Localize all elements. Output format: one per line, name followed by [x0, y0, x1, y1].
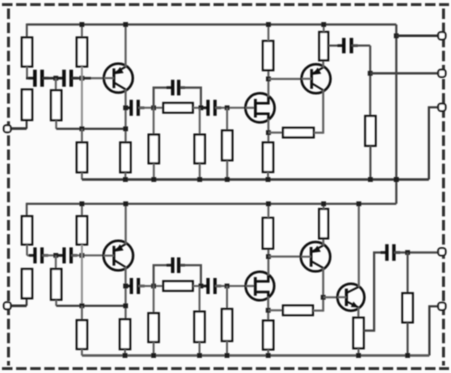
wire: R6 bottom to bottom bus [124, 172, 126, 179]
wire: Q1 emitter up to supply bus [125, 25, 127, 67]
wire: source branch to R13 [268, 132, 283, 134]
wire: FET' source column down [267, 297, 269, 321]
wire: R14' top stub to bus [323, 204, 325, 209]
resistor R6' [120, 319, 130, 349]
node: bus/R2' junction [80, 201, 85, 206]
wire: R4 bottom to mid bus [55, 120, 57, 129]
node: collector/mid-bus junction [123, 126, 128, 131]
wire: C3 to bridged-T left node [138, 107, 163, 109]
node: bus/R11 junction [266, 22, 271, 27]
node: source' branch junction [266, 308, 271, 313]
node: output/terminal branch [368, 71, 373, 76]
wire: Q4 emitter down to R16 [357, 307, 359, 317]
wire: branch to Q4 base [323, 296, 337, 298]
wire: stub down to R8' [153, 286, 155, 313]
wire: R10' to bottom bus [226, 341, 228, 356]
wire: C3' to bridged-T left node [139, 285, 164, 287]
capacitor C4' (bridge top) [166, 257, 185, 273]
wire: supply corner down feed to channel 2 [395, 25, 397, 204]
wire: R10 to bottom bus [226, 160, 228, 179]
resistor R11' [263, 218, 273, 249]
capacitor C3 [125, 100, 144, 116]
wire: bus corner down to R1' [26, 203, 28, 216]
node: mid bus / R5' junction [80, 303, 85, 308]
transistor Q3 (PNP) [302, 64, 331, 93]
node: bus/R14 junction [321, 22, 326, 27]
wire: R5' bottom to channel bottom bus [81, 349, 83, 356]
node: bridged-T left [151, 105, 156, 110]
node: mid bus / R5 junction [80, 126, 85, 131]
wire: R1 bottom to input cap node [26, 67, 28, 79]
wire: R8 to bottom bus [153, 163, 155, 179]
node: bridged-T right [199, 105, 204, 110]
terminal 5 (common 2) [438, 303, 445, 310]
resistor R9 [195, 135, 205, 164]
wire: R9 to bottom bus [199, 163, 201, 179]
wire: collector to C3' [126, 285, 131, 287]
wire: R9' to bottom bus [199, 342, 201, 356]
node: junction to R10 [225, 105, 230, 110]
wire: R13' right to Q3' collector column [313, 310, 323, 312]
wire: C5 to FET gate [215, 107, 245, 109]
wire: R1' bottom to input cap node [26, 245, 28, 256]
wire: branch to terminal 1 [396, 35, 442, 38]
resistor R4 [51, 90, 61, 120]
wire: stub to R5 [81, 129, 83, 143]
wire: mid bus (channel 2) [56, 305, 125, 307]
wire: collector to C3 [126, 107, 130, 109]
node: drain branch junction [266, 77, 271, 82]
wire: drain branch to Q3 base [268, 78, 301, 80]
wire: C7 to terminal 4 [394, 251, 442, 253]
wire: R3' column below input [26, 298, 28, 306]
terminal 1 (supply) [438, 32, 445, 39]
wire: top supply bus (channel 2) [27, 203, 397, 205]
capacitor C4 (bridge top) [166, 80, 185, 96]
terminal 4 (output 2) [438, 248, 445, 255]
transistor Q4 (NPN emitter follower) [337, 284, 364, 311]
wire: left node up and across top cap [154, 265, 172, 286]
capacitor C3' [125, 278, 145, 294]
resistor R15 [365, 116, 375, 146]
resistor R1' [22, 216, 32, 244]
resistor R1 [22, 38, 32, 67]
wire: stub down to R4 [55, 78, 57, 90]
resistor R16 (level pot) [353, 318, 363, 349]
resistor R7 (horizontal) [163, 103, 193, 113]
wire: R12 to bottom bus [267, 172, 269, 180]
resistor R5 [77, 143, 87, 173]
wire: FET' drain column up to bus [267, 249, 269, 276]
capacitor C5' [202, 278, 221, 294]
resistor R2' [77, 216, 87, 244]
wire: input lead to terminal [7, 127, 27, 130]
wire: pot tap to C6 [328, 45, 342, 47]
wire: R6' bottom to bottom bus [124, 349, 126, 355]
node: junction to R17 [405, 250, 410, 255]
node: R2 column crosses base wire [80, 76, 85, 81]
wire: Q3 emitter up to R14 [322, 60, 324, 67]
capacitor C1' [29, 247, 48, 263]
resistor R6 [120, 143, 130, 173]
wire: Q1' collector down [125, 267, 127, 319]
node: source branch junction [266, 130, 271, 135]
resistor R3' [22, 269, 32, 298]
transistor Q3' (PNP) [301, 242, 330, 271]
resistor R8' [148, 313, 158, 342]
wire: stub down to R8 [153, 108, 155, 135]
node: bottom bus junctions (channel 2) [123, 353, 410, 358]
node: bus/Q4 junction [356, 201, 361, 206]
wire: C2 to Q1 base [71, 77, 104, 80]
wire: C5' to FET gate [215, 285, 246, 287]
terminal: input 2 (left) [4, 302, 11, 309]
wire: Q3' collector down to R13' [322, 268, 324, 312]
node: R1/C1 junction [26, 77, 33, 80]
transistor Q1' (PNP) [104, 241, 134, 271]
capacitor C2' [58, 247, 78, 263]
wire: R17 to bottom bus [407, 322, 409, 355]
wire: drain' branch to Q3' base [268, 256, 301, 258]
wire: mid bus (channel 1) [56, 128, 125, 130]
wire: FET source column down [267, 119, 269, 143]
capacitor C5 [202, 100, 221, 116]
wire: R2' column from bus [81, 204, 83, 216]
node: R2' column crosses base wire [80, 253, 85, 258]
wire: R8' to bottom bus [153, 342, 155, 356]
node: bus/Q1' junction [123, 201, 128, 206]
resistor R10' [222, 309, 232, 341]
wire: stub down to R10' [226, 286, 228, 309]
resistor R17 [402, 293, 412, 322]
wire: Q1' emitter up to supply bus [125, 204, 127, 244]
node: bridged-T left [151, 284, 156, 289]
node: collector/C3 junction [123, 105, 128, 110]
wire: Q3' emitter up to R14' [322, 238, 324, 245]
transistor V2' (FET) [246, 272, 275, 301]
wire: R11 top stub to bus [267, 25, 269, 42]
node: junction to R4 [53, 76, 58, 81]
wire: stub down to R4' [55, 255, 57, 269]
wire: C1 to C2 [42, 77, 63, 80]
resistor R12' [263, 321, 273, 350]
node: supply feed junction at channel-1 bottom bus [394, 177, 399, 182]
resistor R5' [77, 320, 87, 349]
wire: stub to R5' [81, 306, 83, 320]
wire: source' branch to R13' [268, 309, 283, 311]
wire: terminal 5 lead [429, 306, 442, 355]
terminal: input 1 (left) [4, 125, 11, 132]
wire: R4' bottom to mid bus [55, 300, 57, 306]
node: drain' branch junction [266, 254, 271, 259]
wire: C6 to output column [351, 45, 370, 47]
wire: R16 to bottom bus [358, 348, 360, 355]
node: bus/R2 junction [80, 22, 85, 27]
wire: output column down to bottom bus [369, 46, 371, 116]
wire: R5 bottom to channel bottom bus [81, 172, 83, 179]
wire: Q1 collector down [125, 89, 127, 142]
wire: R13 right to Q3 collector column [314, 132, 323, 134]
node: bus/R11' junction [266, 201, 271, 206]
wire: R7 right to node [193, 107, 207, 109]
wire: Q4 collector up to supply bus [358, 204, 360, 287]
wire: top cap to right node [180, 265, 201, 286]
wire: bus corner down to R1 [26, 24, 28, 38]
terminal 2 (output 1) [438, 70, 445, 77]
resistor R2 [77, 38, 87, 67]
wire: C1' to C2' [42, 254, 63, 256]
node: collector/C3' junction [123, 284, 128, 289]
capacitor C2 [58, 70, 78, 87]
node: junction to R10' [225, 284, 230, 289]
resistor R11 [263, 41, 273, 70]
resistor R3 [22, 90, 32, 121]
node: collector'/Q4 base junction [321, 295, 326, 300]
wire: FET drain column up to bus [267, 70, 269, 97]
wire: R7' right to node [193, 285, 207, 287]
resistor R14' [319, 209, 328, 238]
wire: terminal 3 lead [429, 107, 442, 179]
node: junction to R4' [53, 253, 58, 258]
resistor R14 (volume pot) [319, 32, 328, 60]
node: branch to terminal 1 [394, 33, 399, 38]
terminal 3 (common 1) [438, 104, 445, 111]
node: bottom bus junctions [123, 177, 399, 182]
wire: R15 to bottom bus [369, 146, 371, 180]
wire: C2' to Q1' base [71, 254, 104, 256]
resistor R8 [149, 135, 159, 164]
transistor Q1 (PNP) [104, 64, 133, 93]
wire: R11' top stub to bus [267, 204, 269, 218]
node: bus/R14' junction [321, 201, 326, 206]
wire: R2' bottom down to mid bus [81, 245, 83, 306]
node: bus/Q1 junction [123, 22, 128, 27]
wire: stub down to R17 [407, 253, 409, 294]
resistor R9' [194, 312, 204, 342]
wire: branch to terminal 2 [370, 72, 442, 74]
wire: input lead to terminal [7, 304, 27, 307]
wire: stub down to R10 [226, 108, 228, 131]
wire: R2 column from bus [81, 25, 83, 38]
wire: pot tap up to C7 [363, 253, 385, 331]
wire: Q3 collector down to R13 [322, 90, 324, 134]
wire: bottom bus (channel 1) [82, 178, 429, 181]
resistor R12 [263, 143, 273, 173]
resistor R10 [222, 131, 232, 161]
wire: R12' to bottom bus [267, 350, 269, 356]
node: collector/mid-bus junction [123, 303, 128, 308]
wire: bottom bus (channel 2) [82, 354, 430, 357]
capacitor C7 [381, 244, 401, 261]
transistor V2 (FET) [245, 93, 274, 122]
wire: stub down to R9 [199, 108, 201, 135]
capacitor C6 [337, 38, 357, 53]
wire: left node up and across top cap [154, 88, 172, 108]
capacitor C1 [29, 70, 49, 87]
wire: R2 bottom down through base wire to mid bus [81, 67, 83, 129]
wire: top cap to right node [180, 88, 201, 108]
wire: top supply bus (channel 1) [27, 23, 397, 25]
wire: R14 top stub to bus [323, 25, 325, 33]
resistor R13 (horizontal) [283, 128, 314, 138]
resistor R7' (horizontal) [163, 281, 193, 291]
node: R1'/C1' junction [27, 254, 33, 256]
resistor R4' [51, 269, 61, 300]
resistor R13' (horizontal) [283, 306, 313, 316]
wire: stub down to R9' [199, 286, 201, 312]
node: bridged-T right [199, 284, 204, 289]
wire: R3 column below input [26, 120, 28, 129]
